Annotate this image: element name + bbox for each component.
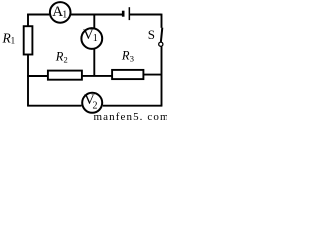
svg-text:1: 1	[93, 33, 98, 44]
battery (cell): long thin positive plate	[129, 7, 131, 20]
svg-text:2: 2	[93, 100, 98, 111]
wire: top-middle segment (ammeter to battery)	[71, 14, 122, 16]
switch S blade	[161, 28, 162, 42]
svg-text:S: S	[148, 27, 155, 42]
svg-text:2: 2	[64, 55, 68, 65]
svg-text:manfen5. com: manfen5. com	[94, 111, 168, 121]
wire: voltmeter V1 bottom lead (V1 down to middle wire junction)	[93, 49, 95, 77]
svg-text:R: R	[55, 50, 64, 64]
svg-text:1: 1	[62, 9, 67, 20]
switch S hinge circle	[159, 42, 163, 46]
battery (cell): short thick negative plate	[122, 11, 125, 17]
wire: middle-right segment (R3 to right wire)	[143, 74, 161, 76]
resistor R1	[24, 26, 33, 54]
wire: left side lower (R1 to bottom-left corner)	[27, 54, 29, 105]
wire: middle-center segment (R2 to R3 with V1 junction)	[82, 75, 113, 77]
wire: bottom-right segment (V2 to bottom-right corner)	[103, 105, 162, 107]
resistor R2	[48, 71, 82, 80]
voltmeter V1	[81, 28, 102, 49]
wire: bottom-left segment (bottom-left corner to V2)	[27, 105, 81, 107]
resistor R3	[112, 70, 143, 79]
wire: voltmeter V1 top lead (top wire down to V1)	[93, 15, 95, 28]
svg-text:3: 3	[130, 54, 134, 64]
wire: top-right segment (battery to top-right corner)	[130, 14, 162, 16]
wire: top-left segment (top-left corner to ammeter)	[28, 13, 49, 16]
svg-text:R: R	[121, 48, 130, 62]
svg-text:1: 1	[11, 36, 16, 46]
wire: right side lower (switch to bottom-right corner)	[161, 46, 163, 105]
voltmeter V2	[82, 93, 102, 113]
wire: left side upper (top-left corner to R1)	[27, 14, 29, 27]
wire: middle-left segment (left wire to R2)	[27, 75, 48, 77]
wire: right side upper (top-right corner down to switch blade)	[161, 14, 163, 28]
ammeter A1	[50, 2, 71, 23]
